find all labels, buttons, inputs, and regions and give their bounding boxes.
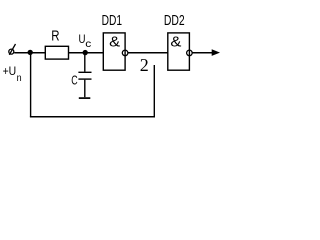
wire DD1 to DD2 (128, 52, 168, 54)
capacitor C (78, 53, 91, 98)
feedback wire left vertical (30, 52, 32, 116)
output arrow (212, 49, 220, 56)
wire resistor to DD1 (69, 52, 104, 54)
gate DD2 (168, 33, 192, 70)
svg-text:c: c (85, 38, 91, 50)
svg-text:&: & (109, 34, 120, 51)
svg-text:&: & (170, 34, 181, 51)
node +Un junction (28, 50, 33, 55)
input terminal (9, 44, 16, 55)
label Uc (79, 32, 92, 50)
svg-text:2: 2 (140, 55, 149, 75)
svg-text:DD1: DD1 (102, 13, 122, 29)
feedback wire right vertical (153, 65, 155, 118)
feedback wire bottom (30, 116, 155, 118)
ground bar (79, 97, 91, 99)
wire input to resistor (14, 52, 45, 54)
node Uc (83, 50, 88, 55)
label +Un (3, 64, 22, 84)
svg-text:n: n (17, 72, 22, 84)
svg-text:DD2: DD2 (164, 13, 185, 29)
gate DD1 (103, 33, 128, 70)
svg-text:R: R (51, 29, 59, 45)
svg-text:+U: +U (3, 64, 17, 78)
svg-text:C: C (71, 74, 77, 88)
resistor R (45, 46, 68, 59)
output wire (192, 52, 212, 54)
